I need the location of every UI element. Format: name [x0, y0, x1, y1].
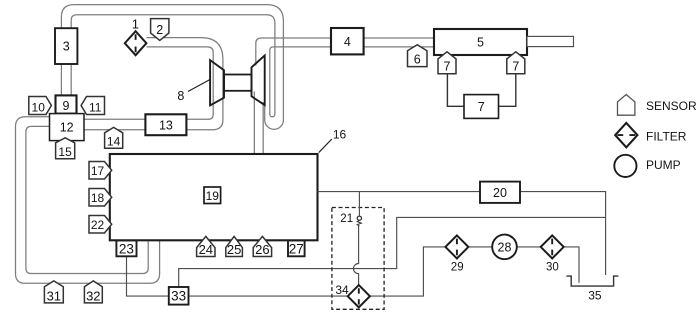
filter 34 [335, 283, 370, 307]
sensor 25 [226, 236, 243, 257]
pipe: air filter to box 13 inner line [147, 47, 214, 119]
svg-text:29: 29 [451, 262, 464, 274]
box 13 [145, 114, 186, 135]
svg-text:FILTER: FILTER [646, 129, 687, 143]
svg-text:15: 15 [58, 145, 72, 159]
wire: drop from engine line to valve 21 [358, 192, 360, 216]
svg-text:19: 19 [206, 189, 220, 203]
pipe: box 4 to box 5 lower line [364, 46, 434, 48]
sensor 17 [89, 162, 112, 180]
sensor 14 [105, 127, 123, 148]
svg-text:32: 32 [86, 288, 100, 303]
pipe: box 4 to box 5 upper line [364, 37, 434, 39]
wire: filter 29 to pump 28 [468, 246, 492, 248]
svg-text:11: 11 [89, 100, 102, 114]
pipe: box 3 to box 9 right line [70, 64, 72, 98]
svg-text:13: 13 [159, 118, 173, 132]
sensor 31 [44, 281, 63, 304]
svg-text:17: 17 [91, 164, 105, 178]
svg-text:12: 12 [60, 121, 74, 135]
svg-text:16: 16 [333, 128, 347, 142]
box 20 [480, 182, 520, 203]
wire: box 20 to tank [520, 192, 606, 275]
pipe: box 12 around bottom-left to engine, inner line [26, 126, 148, 273]
pipe: top loop outer (box 3 to turbine via U-turn) [61, 5, 283, 130]
wire: box 33 up and right to tank line [179, 217, 606, 287]
sensor 24 [197, 236, 215, 257]
svg-text:28: 28 [498, 240, 512, 254]
svg-text:24: 24 [199, 242, 213, 257]
svg-text:8: 8 [177, 89, 184, 103]
sensor 6 [408, 45, 428, 67]
svg-text:22: 22 [91, 218, 105, 232]
svg-text:3: 3 [63, 40, 70, 54]
pump 28 [492, 235, 517, 260]
sensor 10 [29, 97, 52, 115]
turbocharger 8: shaft [224, 75, 252, 91]
filter 29 [445, 235, 468, 273]
svg-text:5: 5 [477, 36, 484, 50]
pipe: box 3 to box 9 left line [60, 64, 62, 98]
wire: box 33 to filter 34 [189, 295, 348, 297]
wire: filter 30 to tank [564, 247, 579, 283]
svg-text:18: 18 [91, 191, 105, 205]
box 12 [50, 114, 85, 141]
svg-text:14: 14 [107, 135, 121, 149]
tank 35 [566, 276, 618, 286]
sensor 15 [56, 138, 75, 159]
svg-text:31: 31 [47, 288, 61, 303]
sensor 2 [151, 19, 169, 41]
wire: engine to box 20 [318, 191, 480, 193]
pipe: engine exhaust to turbine, left line [253, 92, 255, 155]
svg-text:SENSOR: SENSOR [646, 99, 697, 113]
sensor 7 left [438, 52, 456, 74]
sensor 18 [89, 189, 112, 207]
svg-text:2: 2 [156, 23, 163, 37]
svg-text:34: 34 [335, 283, 349, 297]
sensor 26 [253, 236, 271, 257]
pipe: box 12 to box 13 lower line [84, 129, 145, 131]
box 9 [56, 95, 77, 113]
turbocharger 8: compressor trapezoid [210, 60, 224, 105]
svg-text:21: 21 [340, 213, 353, 225]
tail pipe from box 5 [527, 36, 574, 46]
svg-text:1: 1 [132, 17, 139, 32]
legend sensor symbol [618, 95, 635, 116]
pipe: air filter to box 13 outer line (through compressor) [147, 38, 223, 130]
label 16 pointer [319, 139, 332, 153]
pipe: box 12 around bottom-left to engine, outer line [16, 117, 160, 283]
svg-text:10: 10 [32, 100, 46, 114]
wire: valve 21 down with hop to filter 34 [354, 226, 359, 285]
label 8 pointer [188, 80, 210, 92]
svg-text:30: 30 [546, 262, 559, 274]
svg-text:27: 27 [289, 241, 304, 256]
legend filter symbol [615, 123, 637, 147]
pipe: box 12 to box 13 upper line [84, 118, 145, 120]
svg-text:4: 4 [344, 35, 351, 49]
sensor 7 right [507, 52, 525, 74]
svg-text:7: 7 [444, 60, 451, 74]
filter 1 [125, 31, 147, 55]
svg-text:6: 6 [414, 52, 421, 66]
valve 21 circle [357, 216, 361, 220]
sensor 11 [81, 97, 104, 115]
pipe: turbine outlet upper line to box 4 [256, 38, 331, 66]
box 3 [55, 28, 77, 64]
svg-text:25: 25 [227, 242, 241, 257]
filter 30 [541, 235, 564, 273]
turbocharger 8: turbine trapezoid [252, 56, 265, 106]
engine box 16 [110, 154, 318, 240]
box 23 [116, 241, 136, 257]
dashed box (module with 21 and 34) [332, 208, 384, 310]
wire: sensor 7 right to box 7 [499, 74, 516, 107]
svg-text:23: 23 [119, 241, 134, 256]
box 27 [288, 241, 305, 257]
svg-text:33: 33 [171, 289, 186, 304]
svg-text:26: 26 [255, 242, 269, 257]
svg-text:20: 20 [493, 186, 507, 200]
sensor 22 [89, 216, 112, 234]
box 7 [464, 95, 499, 119]
svg-text:7: 7 [478, 100, 485, 114]
svg-text:PUMP: PUMP [646, 158, 681, 172]
sensor 32 [84, 281, 102, 304]
svg-text:7: 7 [512, 60, 519, 74]
box 4 [331, 28, 364, 54]
box 19 [204, 187, 221, 204]
wire: sensor 7 left to box 7 [447, 74, 464, 107]
valve 21 spring [357, 220, 361, 226]
box 33 [169, 287, 189, 305]
pipe: top loop inner continuing to muffler pipe lower line [71, 15, 331, 117]
wire: filter 34 to filter 29 [370, 247, 446, 296]
pipe: engine exhaust to turbine, right line [262, 102, 264, 154]
box 5 [434, 29, 527, 55]
svg-text:9: 9 [63, 99, 70, 113]
svg-text:35: 35 [588, 289, 602, 303]
legend pump symbol [614, 155, 636, 177]
wire: pump 28 to filter 30 [517, 246, 541, 248]
wire: box 23 down to box 33 [127, 256, 169, 296]
